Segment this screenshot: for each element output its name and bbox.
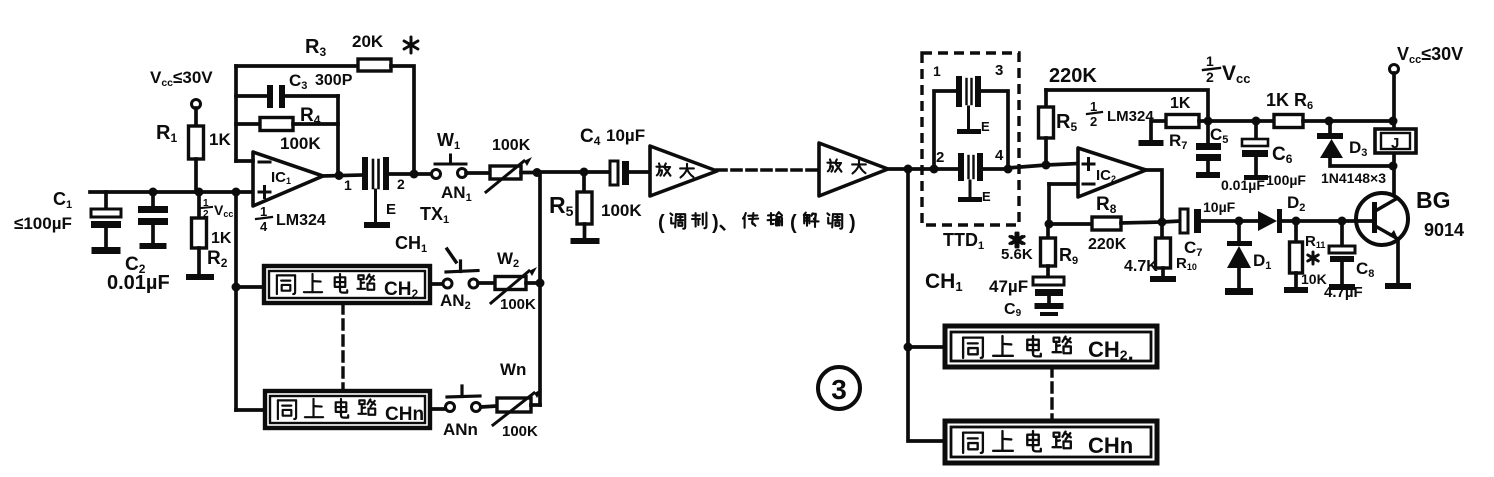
svg-text:Vcc≤30V: Vcc≤30V [1397,44,1463,66]
resistor R1 [194,108,198,126]
op-amp IC1 [253,152,323,206]
wire to right CH2 box [908,345,945,349]
node CH-branch junction [232,188,241,197]
relay J [1375,129,1416,153]
label TTD select mark [1017,233,1020,247]
wire TTD top right [980,91,1008,169]
ground below R11 [1284,287,1308,293]
wire W2 to bus [526,281,540,285]
resistor R5 [582,172,586,192]
node W branch [533,168,542,177]
potentiometer Wn [497,398,531,412]
wire dashed CH link left [341,304,344,391]
node R11 tap [1292,217,1301,226]
wire channel branch vertical [234,192,238,410]
ground below C2 [140,243,167,249]
wire IC2 inverting [1049,182,1078,186]
capacitor C2 [151,192,155,206]
transistor BG [1356,193,1408,245]
svg-text:220K: 220K [1049,65,1097,87]
switch AN1 [432,170,441,179]
node receiver branch [904,165,913,174]
capacitor C8 [1340,221,1344,246]
svg-text:10K: 10K [1301,271,1327,287]
wire R8 right seg [1121,222,1162,223]
wire E electrode upper [967,107,970,130]
resistor R9 [1046,224,1050,238]
wire half Vcc feed [1046,90,1208,121]
node CH2 tap [232,283,241,292]
amplifier block 2 [819,143,888,196]
svg-text:1K: 1K [1266,90,1289,110]
ground below C9 [1035,303,1064,309]
svg-text:1N4148×3: 1N4148×3 [1321,170,1386,186]
svg-text:CHn: CHn [1088,433,1133,458]
node D3 tap [1325,117,1334,126]
wire output to C7 [1162,221,1181,222]
wire AN1 to W1 [466,171,490,175]
svg-text:4.7µF: 4.7µF [1324,284,1363,301]
svg-text:4: 4 [260,219,268,234]
ground below C6 [1244,175,1268,180]
label R9 select mark [1015,233,1018,247]
box same-circuit CH2 right [945,326,1157,367]
wire main left rail [90,190,253,194]
capacitor C4 [610,161,618,185]
svg-text:4: 4 [995,147,1004,164]
node IC1 output [335,171,344,180]
node D1 tap [1235,217,1244,226]
svg-text:BG: BG [1416,187,1451,213]
wire node to R5 node [537,170,584,174]
wire TTD to IC2 [1008,164,1078,169]
node R1-R2 junction [195,188,204,197]
node relay bottom [1389,162,1398,171]
svg-text:9014: 9014 [1424,220,1464,240]
wire TTD top left [934,91,958,169]
wire TTD mid left [934,167,960,171]
resistor R11 [1294,221,1298,242]
resistor R5b [1044,90,1048,107]
node R5b [1042,161,1051,170]
wire Wn to bus [531,403,540,407]
electrode bar upper [957,129,981,134]
svg-text:10µF: 10µF [606,126,645,145]
potentiometer W1 [490,166,521,179]
wire C3 right [285,94,338,98]
svg-text:1: 1 [1206,53,1214,69]
wire Vcc down [1392,73,1396,198]
svg-text:4.7K: 4.7K [1124,258,1158,275]
wire to CH2 box [236,285,264,289]
resistor R6 [1274,115,1303,128]
node TX1 right [410,170,419,179]
terminal Vcc right [1390,65,1399,74]
resistor R2 [197,192,201,218]
terminal Vcc left [192,100,201,109]
ground below emitter [1385,283,1411,289]
svg-text:)、: )、 [712,212,739,234]
svg-text:1: 1 [344,177,352,193]
svg-text:10µF: 10µF [1203,199,1236,215]
svg-text:220K: 220K [1088,236,1127,253]
capacitor C7 [1180,209,1188,233]
wire R4 left [236,122,260,126]
ground below C5 [1196,172,1220,178]
wire CHn to ANn [430,407,445,411]
svg-text:(: ( [658,212,665,234]
capacitor C9 [1033,277,1064,285]
node C5 tap [1204,117,1213,126]
svg-text:CHn: CHn [385,404,424,425]
wire dashed CH link right [1050,367,1053,421]
label circled 3 [818,367,860,409]
capacitor C3 [267,85,273,108]
box same-circuit CH2 left [264,266,430,303]
svg-text:2: 2 [397,176,405,192]
svg-text:1K: 1K [209,130,231,149]
svg-text:LM324: LM324 [276,212,326,229]
svg-text:100µF: 100µF [1266,172,1306,188]
switch AN2 [443,279,452,288]
wire dashed transmission link [717,168,818,172]
node Vcc collector [1389,117,1398,126]
ground below C8 [1329,284,1355,290]
resistor R8 [1092,217,1121,230]
wire R6 right [1303,119,1393,123]
svg-text:2: 2 [936,149,944,166]
op-amp IC2 [1078,148,1146,197]
box same-circuit CHn left [265,391,430,428]
node W2 tap [536,279,545,288]
wire receiver channel bus [908,169,945,441]
wire W bus vertical [538,173,542,406]
svg-text:20K: 20K [352,32,384,51]
ground below R2 [186,274,214,280]
wire W1 to node [521,171,537,175]
diode D3 [1328,121,1332,134]
label R3 select mark [410,37,413,53]
svg-text:): ) [849,212,856,234]
wire feedback right vertical [336,96,340,176]
svg-text:1K: 1K [211,230,232,247]
svg-text:100K: 100K [500,296,536,313]
switch ANn [446,403,455,412]
wire TTD mid right [983,167,1008,171]
svg-text:J: J [1391,135,1399,152]
wire R3 left [236,64,358,68]
box TTD1 dashed [922,53,1019,225]
node R5a [580,168,589,177]
wire TX1 to AN1 [389,172,432,176]
transducer TTD upper [956,76,962,107]
svg-text:100K: 100K [502,423,538,440]
svg-text:Wn: Wn [500,360,526,379]
wire E electrode lower [969,181,972,198]
svg-text:LM324: LM324 [1107,108,1154,125]
svg-text:TTD1: TTD1 [943,230,984,252]
wire CH2 to AN2 [430,282,443,286]
wire C3 left [236,94,268,98]
ground below R10 [1150,276,1176,282]
svg-text:1K: 1K [1170,95,1191,112]
svg-text:CH2.: CH2. [1088,337,1134,365]
svg-text:3: 3 [995,62,1003,79]
svg-text:E: E [982,189,991,204]
electrode bar TX1 [364,222,390,228]
wire R4 right [293,122,338,126]
svg-text:1: 1 [933,63,941,79]
svg-text:E: E [981,119,990,134]
ground below C1 [92,247,121,254]
box same-circuit CHn right [945,421,1157,463]
svg-text:Vcc≤30V: Vcc≤30V [150,68,213,89]
wire R3 right [391,66,414,174]
wire ANn to Wn [481,406,497,407]
node TTD right [1004,165,1013,174]
resistor R3 [358,59,391,71]
wire TX1 E electrode [374,190,377,223]
wire bias rail [1199,119,1274,123]
capacitor C6 [1254,121,1258,139]
svg-text:47µF: 47µF [989,277,1028,296]
resistor R7 [1166,115,1199,128]
svg-text:ANn: ANn [443,420,478,439]
wire to CHn box [236,408,265,412]
svg-text:2: 2 [203,209,209,220]
svg-text:0.01µF: 0.01µF [107,272,170,294]
diode D2 [1258,211,1277,231]
resistor R4 [260,118,293,131]
ground below R7 [1139,140,1164,146]
transducer TX1 [362,157,368,190]
svg-text:3: 3 [831,374,847,405]
svg-text:≤100µF: ≤100µF [14,214,72,233]
svg-text:300P: 300P [315,72,353,89]
capacitor C5 [1206,121,1210,143]
wire node to C4 [584,170,612,174]
node C2 junction [149,188,158,197]
potentiometer W2 [495,277,526,290]
wire amp2 to TTD [888,167,934,171]
svg-text:5.6K: 5.6K [1001,246,1033,263]
node R8 right [1158,218,1167,227]
ground below R5 [571,238,600,244]
label R11 select mark [1312,252,1315,264]
node R8 left [1045,220,1054,229]
wire feedback left vertical [234,66,238,161]
wire C7 to D2 [1201,219,1258,223]
wire IC2 output [1146,170,1162,222]
node C6 tap [1252,117,1261,126]
ground below D1 [1225,288,1253,295]
svg-text:2: 2 [1206,69,1214,85]
svg-text:2: 2 [1090,114,1097,129]
node C8 tap [1338,217,1347,226]
wire IC1 output [323,175,363,176]
svg-text:100K: 100K [280,134,321,153]
amplifier block 1 [650,146,717,196]
capacitor C1 [104,192,108,209]
resistor R10 [1160,222,1164,238]
node TTD left [930,165,939,174]
svg-text:(: ( [790,212,797,234]
wire AN2 to W2 [478,281,495,285]
transducer TTD lower [958,153,964,181]
electrode bar lower [958,197,982,202]
wire R7 ground stub [1151,121,1166,141]
node CH2 right tap [904,343,913,352]
wire IC1 inverting input [236,159,253,163]
svg-text:100K: 100K [601,201,642,220]
diode D1 [1237,221,1241,242]
wire R8 left seg [1049,222,1092,226]
svg-text:E: E [386,201,396,218]
svg-text:100K: 100K [492,137,531,154]
